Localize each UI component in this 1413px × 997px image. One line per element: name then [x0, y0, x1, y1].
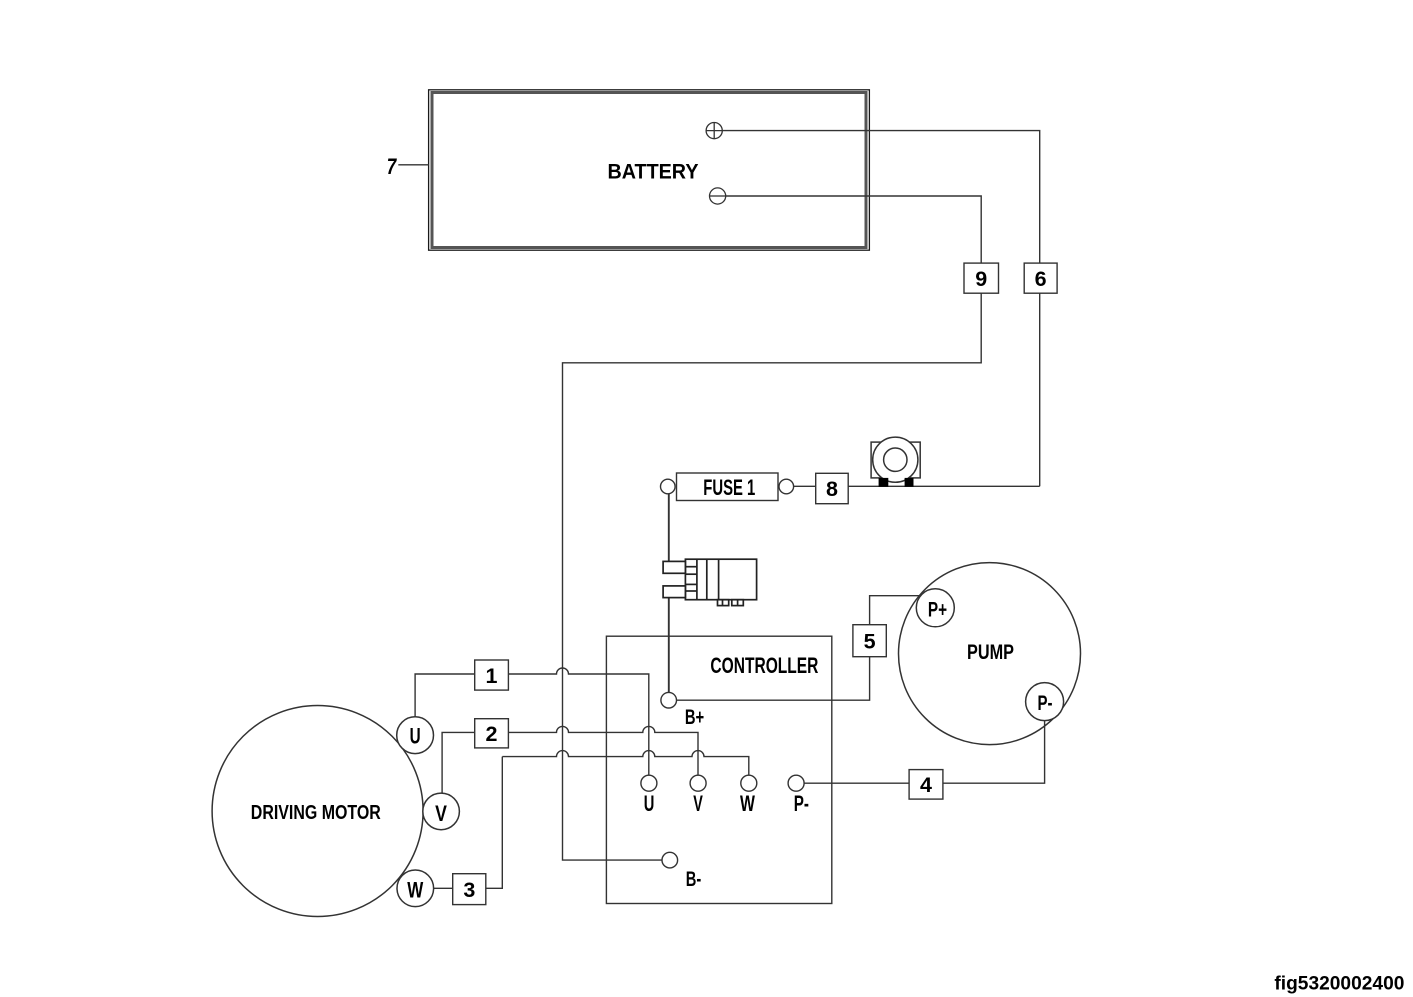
wire W motor to item3: [434, 887, 453, 889]
svg-text:4: 4: [920, 773, 932, 797]
svg-text:FUSE 1: FUSE 1: [703, 475, 755, 500]
terminal V controller: [690, 775, 706, 816]
terminal U controller: [641, 775, 657, 816]
svg-text:1: 1: [486, 664, 498, 688]
svg-text:9: 9: [975, 267, 987, 291]
svg-text:3: 3: [463, 878, 475, 902]
svg-text:P+: P+: [928, 597, 947, 621]
wire contactor to fuse right: [794, 485, 1040, 487]
item 1 box: [475, 660, 509, 690]
wire fuse left to relay blade: [668, 494, 670, 562]
svg-text:P-: P-: [794, 791, 809, 816]
fuse right terminal circle: [779, 479, 794, 494]
fuse F1: [661, 473, 794, 501]
terminal W controller: [740, 775, 757, 816]
item 5 box: [853, 625, 886, 657]
svg-text:DRIVING MOTOR: DRIVING MOTOR: [251, 801, 381, 824]
svg-text:W: W: [740, 791, 755, 816]
svg-text:5: 5: [864, 629, 876, 653]
svg-text:fig5320002400: fig5320002400: [1274, 973, 1404, 995]
svg-text:P-: P-: [1038, 691, 1053, 715]
wire B+ to item5: [677, 657, 870, 701]
svg-text:V: V: [693, 791, 703, 816]
wire item4 to controller P-: [804, 782, 909, 784]
svg-text:B+: B+: [685, 705, 704, 729]
item 2 box: [475, 719, 509, 748]
wire relay to controller B+: [668, 598, 670, 693]
wire pump P- down to item4: [943, 705, 1045, 783]
wire 3: to controller W with hops: [502, 751, 749, 776]
battery negative terminal: [710, 188, 726, 204]
pump terminal P-: [1026, 683, 1064, 721]
terminal B+: [661, 692, 704, 729]
item 4 box: [909, 770, 943, 800]
item 9 box: [964, 263, 999, 293]
wire battery plus to contactor (net 6): [722, 131, 1039, 487]
driving motor: [212, 706, 423, 917]
wire battery minus down through item9 to B- (net 9): [563, 196, 982, 860]
svg-text:U: U: [410, 724, 421, 749]
battery positive terminal: [706, 123, 722, 139]
contactor: [871, 437, 920, 487]
svg-text:BATTERY: BATTERY: [608, 160, 699, 184]
terminal P- controller: [788, 775, 809, 816]
svg-text:7: 7: [387, 154, 398, 179]
motor terminal V: [423, 793, 460, 830]
relay connector: [663, 559, 757, 605]
leader dash for label 7: [398, 164, 428, 166]
wire U motor to item1: [415, 674, 475, 717]
wire item5 to pump P+: [870, 596, 930, 625]
item 8 box: [816, 473, 849, 503]
item 6 box: [1024, 263, 1057, 293]
battery box: [429, 90, 870, 250]
controller box: [606, 636, 831, 903]
motor terminal U: [397, 717, 434, 754]
wire item3 up to wire 3: [486, 757, 503, 889]
pump terminal P+: [916, 589, 954, 627]
svg-text:B-: B-: [686, 867, 702, 891]
svg-text:V: V: [435, 801, 447, 826]
wire 1: item1 to controller U with hops: [508, 668, 648, 776]
svg-text:8: 8: [826, 477, 838, 501]
pump: [899, 563, 1081, 745]
item 3 box: [453, 874, 486, 905]
svg-text:U: U: [644, 791, 655, 816]
svg-text:W: W: [407, 878, 423, 903]
wire 2: item2 to controller V with hops: [508, 726, 698, 775]
motor terminal W: [397, 870, 434, 907]
svg-text:PUMP: PUMP: [967, 641, 1014, 664]
fuse left terminal circle: [661, 479, 676, 494]
svg-text:CONTROLLER: CONTROLLER: [710, 653, 818, 678]
terminal B-: [662, 852, 701, 891]
svg-text:2: 2: [486, 722, 498, 746]
wire V motor to item2: [442, 732, 475, 793]
svg-text:6: 6: [1035, 267, 1047, 291]
